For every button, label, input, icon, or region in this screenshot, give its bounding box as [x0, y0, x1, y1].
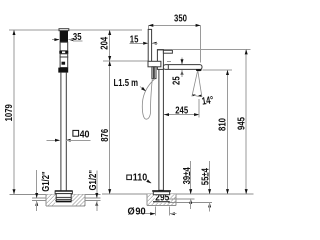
svg-text:245: 245	[175, 104, 188, 115]
svg-text:L1.5 m: L1.5 m	[114, 77, 139, 88]
svg-text:350: 350	[174, 13, 187, 24]
column front tube	[60, 73, 62, 191]
angle arc	[192, 95, 201, 97]
hose loop	[142, 79, 155, 120]
dimension 1079 line	[13, 31, 15, 195]
node sub-floor level line B	[32, 200, 100, 202]
svg-text:110: 110	[133, 172, 148, 184]
dimension 945	[245, 50, 247, 194]
svg-text:25: 25	[170, 76, 181, 85]
water stream lines	[198, 71, 202, 97]
svg-text:55±4: 55±4	[200, 167, 211, 185]
dimension 35	[52, 39, 59, 41]
upper body front	[60, 42, 68, 51]
sub-floor level lines right	[168, 198, 195, 200]
wire spout-level extension line	[103, 60, 148, 62]
column side view	[159, 66, 164, 190]
dimension dia 90	[154, 207, 156, 216]
base side view	[152, 190, 171, 192]
base left view body	[56, 194, 71, 202]
extension spout bottom to 810	[202, 69, 232, 71]
floor hatch right view	[147, 194, 154, 205]
spout end-on band	[59, 51, 68, 54]
top cap side	[163, 50, 172, 53]
dimension 350	[148, 24, 200, 26]
dimension 810	[227, 70, 229, 193]
handle black front	[60, 31, 68, 43]
svg-text:945: 945	[236, 117, 247, 130]
svg-text:14°: 14°	[201, 94, 215, 107]
label square 40	[73, 130, 79, 136]
svg-text:40: 40	[80, 129, 90, 141]
floor line left view	[10, 193, 101, 195]
dimension 876 bottom arrow	[108, 189, 111, 194]
handshower front	[60, 57, 68, 68]
svg-text:35: 35	[73, 31, 82, 42]
svg-text:39±4: 39±4	[181, 166, 192, 184]
svg-text:1079: 1079	[3, 104, 14, 121]
spout tip	[196, 69, 202, 71]
floor line right view	[102, 193, 254, 195]
svg-text:Ø90: Ø90	[128, 206, 147, 218]
dimension G1/2 right	[96, 171, 98, 198]
svg-text:810: 810	[216, 118, 227, 131]
dimension G1/2 left	[36, 170, 38, 198]
node sub-floor level line A	[32, 197, 100, 199]
lever side view	[148, 29, 151, 61]
dimension 39+-4	[190, 161, 192, 194]
dimension 25	[181, 58, 183, 64]
wire top extension line	[9, 29, 142, 31]
dimension 55+-4	[209, 161, 211, 194]
floor hatch left view	[46, 194, 55, 205]
svg-text:204: 204	[98, 36, 109, 50]
base left view flange	[55, 191, 72, 194]
label square 110	[127, 175, 132, 180]
extension top cap to 945	[172, 48, 250, 50]
svg-text:876: 876	[99, 129, 110, 142]
svg-text:G1/2": G1/2"	[40, 171, 51, 191]
top cap front	[59, 29, 69, 31]
wire spout joint	[167, 65, 169, 70]
dimension 204 line	[109, 31, 111, 194]
spout side view	[163, 65, 202, 70]
hub bar	[148, 61, 161, 67]
dimension 245	[164, 114, 199, 116]
dimension square-40	[46, 139, 59, 141]
handshower pins side	[152, 67, 154, 79]
